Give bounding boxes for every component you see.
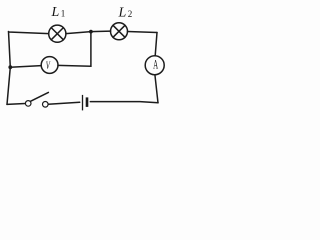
svg-text:V: V bbox=[46, 60, 51, 72]
svg-text:1: 1 bbox=[61, 8, 66, 18]
svg-text:L: L bbox=[51, 5, 60, 20]
svg-text:2: 2 bbox=[128, 9, 133, 19]
svg-text:A: A bbox=[153, 59, 159, 73]
svg-text:L: L bbox=[118, 6, 127, 21]
